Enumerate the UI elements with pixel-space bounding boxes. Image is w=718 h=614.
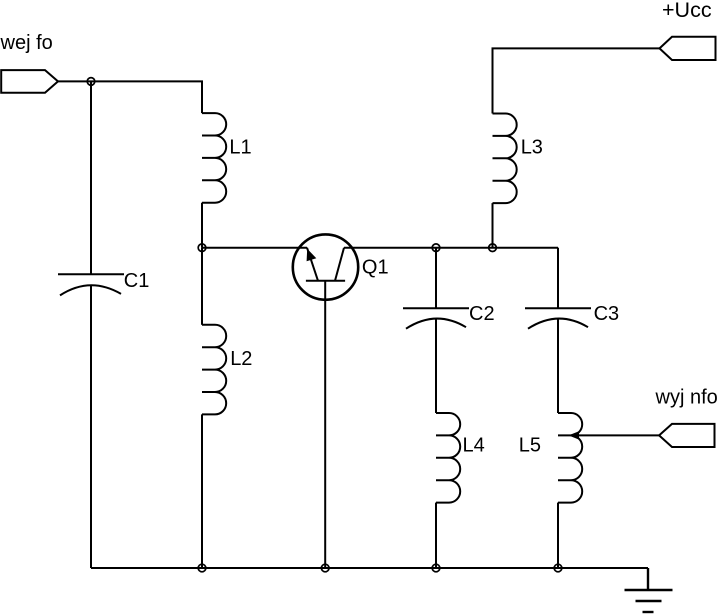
wire left vertical above C1 — [90, 81, 92, 274]
inductor L2 — [202, 325, 226, 415]
svg-text:L3: L3 — [521, 136, 543, 158]
inductor L1 — [202, 113, 226, 203]
svg-text:C1: C1 — [124, 270, 150, 292]
wire C3 branch corner down — [557, 248, 559, 309]
wire C2 bottom to L4 top — [435, 319, 437, 413]
node B junction — [432, 244, 440, 252]
node G junction bottom rail L5 — [554, 564, 562, 572]
wire bottom rail — [91, 567, 648, 569]
wire Q1 base to bottom rail — [324, 281, 326, 568]
inductor L3 — [493, 114, 517, 204]
output connector wyj nfo — [659, 424, 714, 447]
wire L4 bottom to bottom rail — [435, 503, 437, 568]
inductor L5 — [558, 413, 582, 503]
wire Q1 collector to C3 branch — [344, 247, 558, 249]
svg-text:L5: L5 — [519, 435, 541, 457]
wire input to L1 top corner — [58, 81, 202, 113]
svg-text:L2: L2 — [230, 348, 252, 370]
wire C3 bottom to L5 top — [557, 319, 559, 413]
wire L1 bottom to node A — [201, 203, 203, 248]
ground — [625, 568, 673, 612]
inductor L4 — [436, 413, 460, 503]
node E junction bottom rail base — [321, 564, 329, 572]
svg-text:wej fo: wej fo — [0, 32, 53, 54]
svg-text:L4: L4 — [463, 435, 485, 457]
wire L3 top to +Ucc connector — [493, 48, 660, 113]
svg-text:L1: L1 — [229, 136, 251, 158]
node A junction — [198, 244, 206, 252]
wire node A to Q1 emitter — [202, 247, 307, 249]
wire node A to L2 top — [201, 248, 203, 325]
node F junction bottom rail L4 — [432, 564, 440, 572]
capacitor C3 — [525, 308, 591, 329]
wire L5 tap to output connector — [578, 434, 659, 436]
wire L2 bottom to bottom rail — [201, 414, 203, 568]
svg-text:Q1: Q1 — [362, 256, 389, 278]
svg-text:C3: C3 — [594, 303, 620, 325]
node C junction — [489, 244, 497, 252]
capacitor C2 — [403, 308, 469, 329]
wire L5 bottom to bottom rail — [557, 503, 559, 568]
svg-text:C2: C2 — [469, 303, 495, 325]
svg-text:wyj nfo: wyj nfo — [655, 386, 718, 408]
wire node C to L3 bottom — [492, 203, 494, 248]
svg-text:+Ucc: +Ucc — [662, 0, 712, 22]
transistor Q1 — [293, 234, 358, 299]
power connector +Ucc — [660, 37, 716, 60]
arrow tap on L5 — [569, 431, 580, 439]
input connector wej fo — [1, 70, 58, 93]
wire left vertical below C1 to bottom rail — [90, 286, 92, 569]
wire node B to C2 top — [435, 248, 437, 309]
capacitor C1 — [58, 274, 124, 295]
node D junction bottom rail L2 — [198, 564, 206, 572]
node input junction — [87, 78, 95, 86]
